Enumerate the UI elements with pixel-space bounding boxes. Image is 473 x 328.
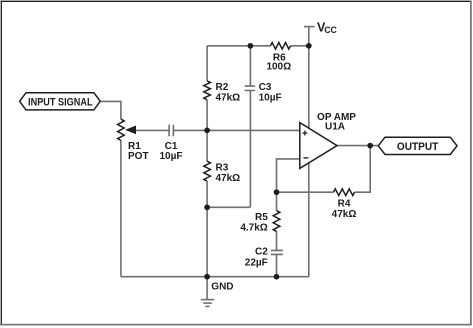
ground symbol <box>206 277 208 300</box>
svg-text:100Ω: 100Ω <box>266 62 291 73</box>
op-amp U1A triangle <box>300 123 337 169</box>
svg-text:47kΩ: 47kΩ <box>216 93 241 104</box>
wire R6 to VCC line <box>291 45 309 47</box>
wire R4 right to output node <box>355 146 371 193</box>
resistor R6 <box>271 43 291 50</box>
wire input-tag to pot top <box>100 101 121 119</box>
VCC bar <box>304 26 315 28</box>
wire op-amp output <box>337 145 378 147</box>
wire C3 top lead <box>249 46 251 86</box>
border frame right <box>470 1 472 326</box>
svg-text:47kΩ: 47kΩ <box>216 173 241 184</box>
junction dot C2 bottom <box>274 274 280 280</box>
junction dot feedback node <box>274 189 280 195</box>
capacitor C3 plates <box>245 86 256 90</box>
junction dot R3 bottom node <box>204 204 210 210</box>
wire top rail R2 to R6 <box>207 45 270 47</box>
junction dot GND node <box>204 274 210 280</box>
capacitor C2 plates <box>271 250 283 254</box>
junction dot C1/R2/R3 node <box>204 128 210 134</box>
wire R5 top lead <box>276 192 278 210</box>
svg-text:R4: R4 <box>338 199 351 210</box>
wire R5 bottom to C2 top <box>276 231 278 250</box>
wire VCC rail down through op-amp to ground <box>308 27 310 277</box>
svg-text:C2: C2 <box>255 247 268 258</box>
wire R3 bottom lead <box>206 181 208 207</box>
wire R3 node to C3 bottom <box>207 206 250 208</box>
svg-text:CC: CC <box>324 25 337 35</box>
junction dot output node <box>367 143 373 149</box>
wire R3 bottom node to GND node <box>206 207 208 276</box>
wire C3 bottom lead <box>249 91 251 207</box>
resistor R5 <box>273 211 280 232</box>
svg-text:POT: POT <box>128 151 149 162</box>
svg-text:INPUT SIGNAL: INPUT SIGNAL <box>28 96 93 108</box>
junction dot VCC rail <box>306 43 312 49</box>
border frame bottom <box>0 324 472 326</box>
potentiometer wiper arrow <box>125 126 136 135</box>
capacitor C1 plates <box>169 125 173 137</box>
svg-text:47kΩ: 47kΩ <box>332 209 357 220</box>
resistor R1 (pot body) <box>118 119 125 140</box>
border frame top <box>1 0 472 2</box>
svg-text:GND: GND <box>211 282 233 293</box>
wire ground rail <box>121 276 309 278</box>
resistor R4 <box>334 189 355 196</box>
svg-text:22µF: 22µF <box>245 258 268 269</box>
wire pot bottom to ground rail <box>120 140 122 276</box>
svg-text:R5: R5 <box>255 212 268 223</box>
op-amp - pin <box>303 157 308 159</box>
svg-text:U1A: U1A <box>325 122 345 133</box>
svg-text:10µF: 10µF <box>160 151 183 162</box>
svg-text:OUTPUT: OUTPUT <box>397 141 439 153</box>
svg-text:10µF: 10µF <box>259 92 282 103</box>
wire C2 bottom to ground rail <box>276 255 278 277</box>
svg-text:R2: R2 <box>216 82 229 93</box>
wire C1 to op-amp + input <box>174 129 300 131</box>
wire wiper to C1 <box>136 129 169 131</box>
wire op-amp - input <box>277 159 300 192</box>
svg-text:4.7kΩ: 4.7kΩ <box>240 223 267 234</box>
wire R2 bottom to R3 top <box>206 100 208 162</box>
resistor R2 <box>204 81 211 100</box>
junction dot C3 top <box>248 43 254 49</box>
INPUT SIGNAL tag <box>20 93 101 110</box>
wire feedback node to R4 <box>277 191 334 193</box>
border frame left <box>0 1 2 326</box>
op-amp + pin <box>302 131 307 136</box>
wire R2 top lead <box>206 46 208 81</box>
OUTPUT tag <box>378 137 457 154</box>
svg-text:R3: R3 <box>216 163 229 174</box>
resistor R3 <box>204 161 211 181</box>
